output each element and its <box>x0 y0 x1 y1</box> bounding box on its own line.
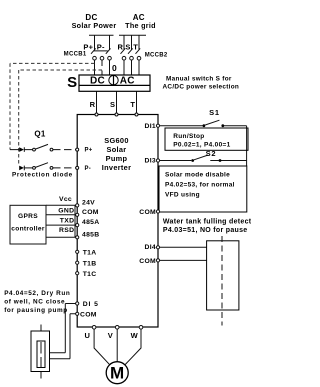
svg-text:COM: COM <box>139 209 156 216</box>
svg-text:controller: controller <box>11 225 45 232</box>
svg-text:P4.03=51, NO for pause: P4.03=51, NO for pause <box>163 227 248 234</box>
svg-text:for pausing pump: for pausing pump <box>4 307 68 314</box>
svg-text:MCCB2: MCCB2 <box>145 52 168 58</box>
svg-text:DI 5: DI 5 <box>83 301 99 308</box>
svg-text:S: S <box>110 100 115 109</box>
svg-text:T1A: T1A <box>83 250 97 257</box>
svg-text:Inverter: Inverter <box>102 163 132 172</box>
svg-text:P0.02=1, P4.00=1: P0.02=1, P4.00=1 <box>173 141 230 148</box>
svg-text:0: 0 <box>112 63 117 73</box>
svg-text:AC: AC <box>120 76 135 87</box>
svg-text:S: S <box>67 74 77 91</box>
svg-text:COM: COM <box>80 311 97 318</box>
svg-text:DI3: DI3 <box>145 158 156 165</box>
svg-text:COM: COM <box>82 209 99 216</box>
svg-text:RSD: RSD <box>59 227 74 234</box>
svg-text:Run/Stop: Run/Stop <box>173 133 204 140</box>
svg-text:P-: P- <box>97 43 105 52</box>
svg-text:T1B: T1B <box>83 260 97 267</box>
svg-text:W: W <box>131 331 139 340</box>
svg-text:SG600: SG600 <box>104 136 129 145</box>
svg-text:MCCB1: MCCB1 <box>64 52 87 58</box>
svg-text:S2: S2 <box>206 149 217 158</box>
svg-text:Water tank fulling detect: Water tank fulling detect <box>163 218 252 225</box>
svg-text:M: M <box>110 364 124 383</box>
svg-text:P4.04=52, Dry Run: P4.04=52, Dry Run <box>4 290 70 297</box>
svg-text:R: R <box>117 43 123 52</box>
svg-text:P-: P- <box>85 166 92 172</box>
svg-text:DC: DC <box>90 76 105 87</box>
svg-text:Solar mode disable: Solar mode disable <box>165 172 230 179</box>
svg-text:S: S <box>125 43 130 52</box>
svg-text:V: V <box>108 331 113 340</box>
svg-text:T: T <box>133 43 138 52</box>
svg-text:T: T <box>130 100 135 109</box>
svg-text:R: R <box>90 100 96 109</box>
svg-text:P4.02=53, for normal: P4.02=53, for normal <box>165 182 235 189</box>
svg-text:485A: 485A <box>82 219 99 226</box>
svg-text:Solar Power: Solar Power <box>72 21 117 30</box>
svg-text:Pump: Pump <box>106 154 128 163</box>
svg-text:S1: S1 <box>209 108 220 117</box>
svg-text:Manual switch S for: Manual switch S for <box>166 75 232 82</box>
svg-text:of well, NC close: of well, NC close <box>4 299 65 306</box>
svg-text:Protection diode: Protection diode <box>12 172 73 179</box>
svg-text:AC/DC power selection: AC/DC power selection <box>163 83 240 90</box>
svg-text:DI1: DI1 <box>145 123 156 130</box>
svg-text:TXD: TXD <box>60 217 75 224</box>
svg-text:P+: P+ <box>83 43 93 52</box>
svg-text:U: U <box>85 331 91 340</box>
svg-text:Vcc: Vcc <box>59 196 72 203</box>
svg-text:T1C: T1C <box>83 271 97 278</box>
svg-text:COM: COM <box>139 258 156 265</box>
svg-text:DI4: DI4 <box>145 244 156 251</box>
svg-text:Q1: Q1 <box>34 129 46 138</box>
svg-text:VFD using: VFD using <box>165 192 200 199</box>
svg-text:24V: 24V <box>82 199 95 206</box>
svg-text:485B: 485B <box>82 231 99 238</box>
svg-text:Solar: Solar <box>107 145 127 154</box>
svg-text:GPRS: GPRS <box>18 213 38 220</box>
svg-text:P+: P+ <box>85 148 93 154</box>
svg-text:GND: GND <box>58 208 74 215</box>
svg-text:The grid: The grid <box>125 21 156 30</box>
